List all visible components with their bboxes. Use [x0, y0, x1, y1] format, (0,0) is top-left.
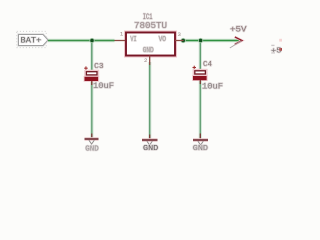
- svg-text:VI: VI: [130, 36, 136, 44]
- ground symbol right bar: [193, 139, 208, 141]
- wire C4 upper segment: [199, 41, 202, 72]
- svg-text:GND: GND: [193, 145, 209, 153]
- svg-text:C3: C3: [94, 63, 104, 71]
- wire C3 lower segment: [90, 81, 93, 139]
- svg-text:GND: GND: [143, 47, 154, 55]
- wire BAT+ to IC pin 1: [48, 40, 115, 42]
- svg-text:1: 1: [120, 31, 124, 38]
- wire C3 upper segment: [90, 41, 93, 73]
- ground symbol middle bar: [142, 139, 158, 141]
- +5V supply arrow: [235, 37, 242, 45]
- ground symbol right chevron: [198, 141, 203, 145]
- +5V arrow gray tail mark: [230, 41, 242, 48]
- junction node at C3 tap: [89, 38, 94, 43]
- IC1 pin 2 stub: [149, 56, 151, 66]
- supply flag BAT+ outline: [19, 35, 49, 46]
- regulator IC1 body: [126, 33, 175, 56]
- svg-text:10uF: 10uF: [202, 82, 223, 91]
- junction node at IC pin 3: [181, 38, 186, 43]
- junction node at C4 tap: [198, 38, 203, 43]
- svg-text:7805TU: 7805TU: [134, 21, 167, 31]
- capacitor C3 top plate: [86, 72, 97, 75]
- IC1 pin 3 stub: [175, 40, 184, 42]
- ground symbol left bar: [85, 138, 99, 140]
- ground symbol middle chevron: [147, 141, 152, 145]
- wire C4 lower segment: [199, 81, 202, 139]
- ground pin middle dark segment: [149, 135, 151, 141]
- svg-text:GND: GND: [143, 145, 159, 153]
- IC1 pin 1 stub: [115, 40, 126, 42]
- ground pin left dark segment: [91, 134, 93, 140]
- svg-text:GND: GND: [85, 145, 99, 153]
- supply flag BAT+ selection dots: [17, 31, 46, 47]
- capacitor C4 plus mark: [193, 66, 197, 70]
- svg-text:2: 2: [144, 57, 148, 64]
- capacitor C3 lower pin dark segment: [91, 81, 93, 85]
- svg-text:VO: VO: [159, 36, 167, 44]
- clipped +5V fragment at right edge: [271, 39, 282, 56]
- wire IC GND pin to ground: [148, 62, 151, 139]
- svg-text:10uF: 10uF: [93, 82, 114, 91]
- wire IC pin 3 to +5V arrow: [183, 40, 239, 42]
- capacitor C3 bottom plate: [85, 77, 99, 81]
- svg-text:C4: C4: [203, 61, 212, 69]
- capacitor C4 bottom plate: [193, 76, 207, 80]
- svg-text:3: 3: [178, 31, 182, 38]
- capacitor C4 lower pin dark segment: [199, 80, 201, 84]
- ground pin right dark segment: [199, 134, 201, 140]
- capacitor C4 top plate: [195, 71, 206, 74]
- ground symbol left chevron: [89, 140, 94, 144]
- svg-text:BAT+: BAT+: [21, 37, 42, 46]
- svg-text:+5V: +5V: [230, 26, 247, 35]
- capacitor C3 plus mark: [84, 66, 88, 70]
